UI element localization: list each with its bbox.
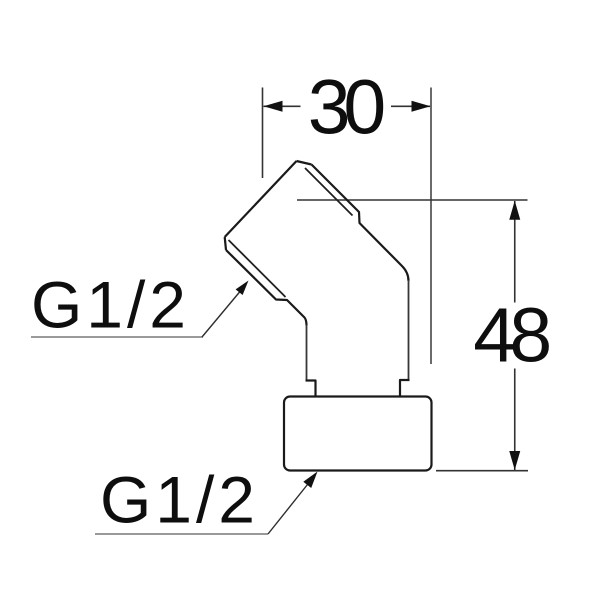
leader line lower G1/2 [268,485,308,535]
underline of upper G1/2 [31,336,203,338]
dimension line 48 lower segment [514,369,516,471]
dimension line 48 upper segment [514,201,516,303]
arrowhead left of dim 30 [264,101,283,112]
underline of lower G1/2 [95,533,268,535]
hex nut body [284,397,432,471]
extension line left of dim 30 [262,88,264,179]
svg-text:30: 30 [308,65,387,151]
left side of spout: thread edge, relief step, bend into vertical body, neck step [226,250,307,326]
leader line upper G1/2 [202,292,240,338]
mouth face of angled spout [225,161,297,237]
left vertical of lower body [306,325,308,382]
right vertical of lower body [408,280,410,380]
tip chamfer top [297,161,312,165]
extension line top of dim 48 [297,199,528,201]
thread crest line right side [305,168,353,216]
left neck step [306,381,316,397]
svg-text:G1/2: G1/2 [100,463,255,537]
arrowhead right of dim 30 [412,101,431,112]
leader arrowhead lower G1/2 [303,472,317,489]
dimension line 30 left segment [264,105,301,107]
extension line right of dim 30 [430,88,432,365]
svg-text:G1/2: G1/2 [31,268,186,342]
arrowhead top of dim 48 [509,201,520,220]
right side of spout: thread edge, relief step, bend into vertical body, neck step [312,165,409,282]
dimension line 30 right segment [391,105,430,107]
extension line bottom of dim 48 [436,470,528,472]
thread crest line left side [229,240,286,297]
svg-text:48: 48 [473,293,552,379]
arrowhead bottom of dim 48 [509,451,520,470]
right neck step [400,380,410,397]
tip chamfer bottom [225,237,226,250]
leader arrowhead upper G1/2 [236,281,249,296]
